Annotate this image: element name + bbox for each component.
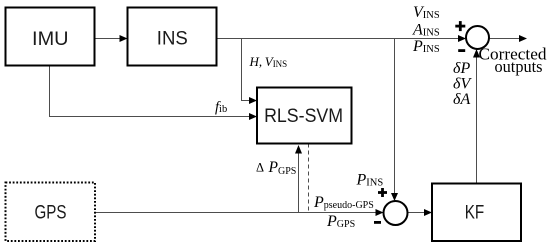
wire IMU f_ib to RLS-SVM <box>50 67 258 121</box>
svg-text:δV: δV <box>453 76 472 93</box>
svg-text:INS: INS <box>157 28 188 50</box>
svg-text:δP: δP <box>453 60 470 77</box>
label P_pseudo-GPS <box>313 194 374 211</box>
sign minus at S2 <box>374 221 381 224</box>
summing junction S1 <box>466 26 489 49</box>
wire KF up to summer S1 <box>473 49 480 184</box>
block KF <box>432 184 521 242</box>
label P_GPS <box>326 213 355 230</box>
label delta P_GPS <box>256 159 296 177</box>
wire P_GPS up into RLS-SVM <box>295 145 302 213</box>
label delta P <box>453 60 470 77</box>
svg-text:IMU: IMU <box>32 28 69 50</box>
label f_ib <box>215 100 227 116</box>
label A_INS <box>412 22 440 39</box>
sign plus at S1 <box>455 21 465 31</box>
wire branch P_INS down to summer S2 <box>391 39 398 202</box>
wire branch H,V_INS down to RLS-SVM <box>242 39 258 105</box>
svg-text:GPS: GPS <box>35 202 67 224</box>
label P_INS at S2 <box>356 172 384 189</box>
block GPS (dotted) <box>6 183 96 242</box>
label delta A <box>453 91 470 108</box>
label H, V_INS <box>249 54 288 69</box>
label Corrected outputs <box>479 45 548 77</box>
block IMU <box>6 8 95 66</box>
sign minus at S1 <box>458 49 465 52</box>
block RLS-SVM <box>257 88 352 144</box>
wire summer S1 to corrected outputs <box>489 35 527 42</box>
wire summer S2 to KF <box>408 209 433 216</box>
wire INS output to summer S1 <box>217 35 466 42</box>
svg-text:outputs: outputs <box>495 57 543 76</box>
wire IMU to INS <box>95 35 128 42</box>
svg-text:Δ: Δ <box>256 161 264 175</box>
block INS <box>128 8 217 66</box>
label V_INS <box>413 4 440 21</box>
svg-text:KF: KF <box>465 202 485 224</box>
wire GPS to summer S2 <box>95 209 384 216</box>
wire dashed delta P_GPS from RLS-SVM down to GPS line <box>308 144 310 213</box>
label delta V <box>453 76 472 93</box>
summing junction S2 <box>384 201 408 225</box>
svg-text:δA: δA <box>453 91 470 108</box>
label P_INS top <box>412 38 440 55</box>
svg-text:RLS-SVM: RLS-SVM <box>264 105 343 127</box>
sign plus at S2 <box>378 188 387 197</box>
